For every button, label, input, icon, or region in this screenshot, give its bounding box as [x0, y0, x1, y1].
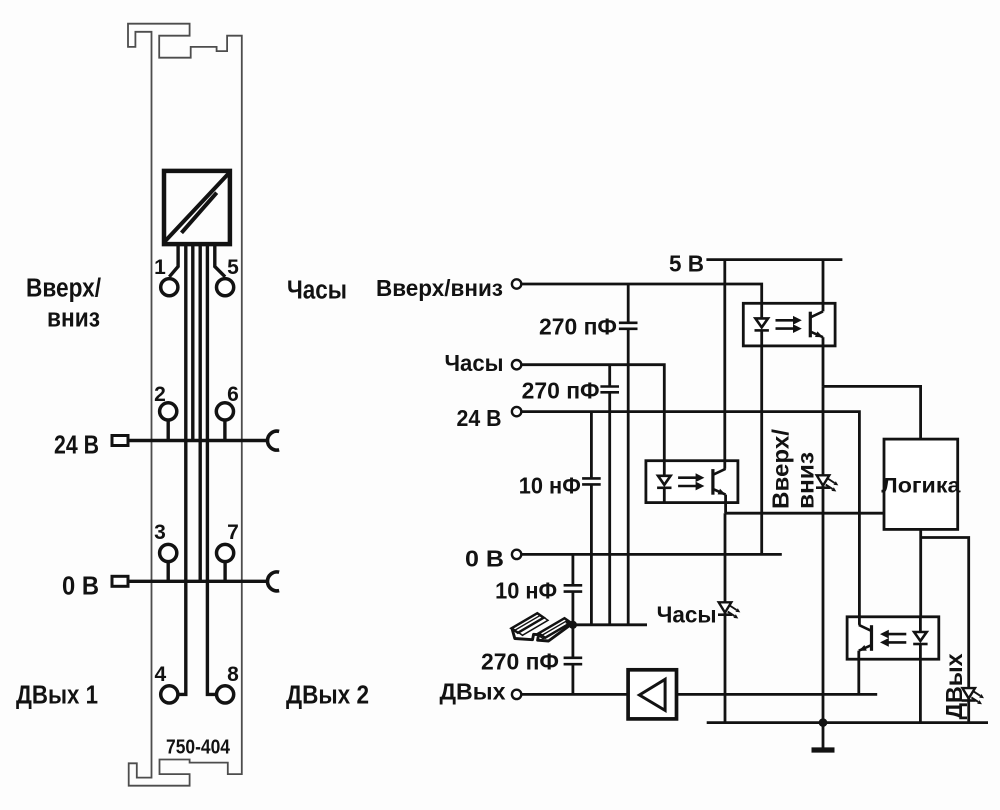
- U1 emitter wire: [822, 337, 825, 386]
- contact block square: [164, 171, 230, 244]
- svg-text:вниз: вниз: [793, 452, 819, 509]
- svg-text:Вверх/: Вверх/: [768, 428, 794, 509]
- svg-text:750-404: 750-404: [166, 736, 231, 759]
- input terminal DVyh: [512, 690, 521, 699]
- 24V module rail wire: [130, 439, 269, 442]
- svg-text:270 пФ: 270 пФ: [481, 648, 559, 674]
- U3 emitter wire: [857, 651, 860, 695]
- node wire to logic top: [823, 386, 921, 439]
- indicator LED Chasy: [718, 602, 740, 618]
- 0V feed-in box terminal: [112, 576, 128, 586]
- svg-text:3: 3: [154, 521, 166, 544]
- capacitor C1 270pF line: [627, 284, 630, 625]
- terminal circle 2: [160, 403, 177, 420]
- svg-text:24 В: 24 В: [457, 405, 502, 431]
- indicator branch Chasy: [724, 513, 727, 722]
- wire to terminal 5: [215, 246, 225, 277]
- capacitor C5 plates: [564, 658, 583, 664]
- capacitor C4 plates: [564, 585, 583, 591]
- U1 collector wire from 5V: [822, 260, 825, 312]
- stem terminal 6: [223, 420, 226, 441]
- 5V rail: [706, 258, 842, 261]
- svg-text:2: 2: [154, 383, 166, 406]
- svg-text:Вверх/вниз: Вверх/вниз: [376, 275, 503, 301]
- logic branch to DVyh indicator: [921, 538, 969, 723]
- svg-text:Логика: Логика: [881, 475, 960, 498]
- capacitor C4 10nF and C5 270pF shared line: [572, 554, 575, 694]
- input terminal Vverh/vniz: [512, 279, 521, 288]
- wire Vverh/vniz to opto U1: [521, 284, 761, 303]
- junction dot ground: [819, 718, 828, 727]
- U2 emitter wire: [724, 495, 727, 514]
- terminal circle 4: [161, 686, 178, 703]
- amp output wire: [677, 693, 878, 696]
- terminal circle 1: [161, 279, 178, 296]
- svg-text:Часы: Часы: [445, 350, 504, 376]
- svg-text:7: 7: [227, 521, 239, 544]
- terminal circle 3: [160, 544, 177, 561]
- svg-text:ДВых 2: ДВых 2: [286, 682, 369, 710]
- terminal circle 6: [216, 403, 233, 420]
- junction dot rail node: [569, 621, 577, 629]
- 24V feed-in box terminal: [112, 436, 128, 446]
- optocoupler U2: [646, 461, 738, 503]
- optocoupler U3: [847, 617, 939, 659]
- svg-text:вниз: вниз: [47, 305, 100, 333]
- terminal circle 8: [217, 686, 234, 703]
- svg-text:10 нФ: 10 нФ: [495, 578, 557, 604]
- U3 collector wire from 24V node: [858, 513, 861, 625]
- U2 collector wire from 5V: [723, 260, 726, 469]
- svg-text:ДВых 1: ДВых 1: [16, 682, 98, 710]
- 0V module rail wire: [130, 580, 269, 583]
- 0V jumper contact: [267, 572, 279, 591]
- amp driver box: [628, 670, 676, 719]
- capacitor C3 plates: [582, 478, 601, 484]
- indicator LED Vverh/vniz: [816, 475, 838, 491]
- wire to terminal 8: [207, 246, 216, 694]
- svg-text:0 В: 0 В: [62, 573, 99, 601]
- stem terminal 3: [166, 561, 169, 581]
- wire to 0V rail: [198, 246, 201, 581]
- indicator LED DVyh: [962, 688, 984, 704]
- contact square diagonal 1: [164, 172, 230, 242]
- wire to terminal 1: [169, 246, 178, 277]
- wire Chasy to opto U2: [521, 365, 664, 461]
- 24V jumper contact: [267, 431, 279, 450]
- indicator branch Vverh/vniz: [822, 386, 825, 722]
- wire to 24V rail: [191, 246, 194, 441]
- svg-text:Часы: Часы: [657, 602, 717, 628]
- svg-text:24 В: 24 В: [54, 432, 99, 460]
- module 750-404 outline: [128, 24, 242, 786]
- DIN rail icon: [512, 613, 574, 641]
- svg-text:Вверх/: Вверх/: [26, 275, 101, 303]
- optocoupler U1: [743, 303, 835, 346]
- svg-text:0 В: 0 В: [465, 546, 504, 572]
- svg-text:8: 8: [227, 663, 239, 686]
- wire to terminal 4: [178, 246, 186, 694]
- opto U1 LED cathode down to 0V: [760, 346, 763, 555]
- svg-text:4: 4: [155, 663, 167, 686]
- logic bottom wire: [919, 529, 922, 616]
- svg-text:5: 5: [227, 256, 239, 279]
- wire DVyh to amp: [521, 693, 628, 696]
- node line from rail dot: [573, 623, 647, 626]
- ground symbol: [812, 747, 835, 752]
- capacitor C2 plates: [600, 387, 619, 393]
- emitter node line to logic: [725, 512, 884, 515]
- wire 24V to node: [521, 412, 859, 514]
- svg-text:ДВых: ДВых: [941, 653, 967, 719]
- capacitor C1 plates: [619, 323, 638, 329]
- contact square diagonal 2: [182, 193, 217, 233]
- logic box: [884, 439, 958, 529]
- input terminal 24V: [512, 407, 521, 416]
- amp triangle: [639, 679, 665, 710]
- terminal circle 5: [217, 279, 234, 296]
- ground bus: [707, 721, 988, 724]
- ground stem: [822, 723, 825, 748]
- stem terminal 7: [223, 561, 226, 581]
- U3 LED wire to bus: [919, 659, 922, 722]
- capacitor C3 10nF line: [590, 412, 593, 625]
- svg-text:10 нФ: 10 нФ: [519, 473, 581, 499]
- svg-text:1: 1: [154, 256, 166, 279]
- svg-text:Часы: Часы: [287, 277, 347, 305]
- capacitor C2 270pF line: [608, 365, 611, 625]
- svg-text:270 пФ: 270 пФ: [522, 377, 600, 403]
- input terminal 0V: [512, 550, 521, 559]
- svg-text:5 В: 5 В: [669, 251, 704, 277]
- svg-text:6: 6: [227, 383, 239, 406]
- svg-text:270 пФ: 270 пФ: [539, 314, 617, 340]
- input terminal Chasy: [512, 360, 521, 369]
- stem terminal 2: [166, 420, 169, 441]
- svg-text:ДВых: ДВых: [440, 679, 506, 705]
- terminal circle 7: [217, 544, 234, 561]
- wire 0V: [521, 553, 781, 556]
